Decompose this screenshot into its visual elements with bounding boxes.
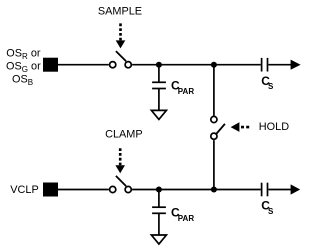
capacitor CS top plates xyxy=(262,58,268,72)
svg-text:VCLP: VCLP xyxy=(10,184,38,196)
control arrow CLAMP head xyxy=(115,165,125,173)
svg-text:OSR or: OSR or xyxy=(6,47,41,61)
terminal VCLP pad xyxy=(43,183,58,197)
control arrow SAMPLE dashed line xyxy=(119,23,122,40)
wire CPAR bottom to ground xyxy=(158,213,160,235)
node junction bottom CPAR xyxy=(156,187,162,193)
wire CLAMP switch to CS (bottom rail) xyxy=(132,189,261,191)
ground top xyxy=(151,110,166,119)
switch CLAMP left contact xyxy=(110,186,116,192)
terminal OS input pad xyxy=(43,58,58,72)
capacitor CPAR top plates xyxy=(152,82,166,88)
svg-text:OSB: OSB xyxy=(12,73,33,87)
node junction top CPAR xyxy=(156,62,162,68)
control arrow HOLD head xyxy=(231,122,240,132)
control arrow CLAMP dashed line xyxy=(119,148,122,165)
svg-text:HOLD: HOLD xyxy=(259,121,289,133)
ground bottom xyxy=(151,235,166,244)
wire CS bottom to output arrow xyxy=(268,189,291,191)
switch CLAMP right contact xyxy=(125,186,131,192)
capacitor CPAR top lead xyxy=(158,65,160,83)
svg-text:CLAMP: CLAMP xyxy=(105,129,143,141)
wire OS pad to SAMPLE switch xyxy=(58,64,109,66)
node junction top HOLD xyxy=(211,62,217,68)
capacitor CPAR bottom lead xyxy=(158,190,160,208)
svg-text:S: S xyxy=(268,82,274,91)
wire HOLD branch lower xyxy=(213,140,215,189)
wire CS top to output arrow xyxy=(268,64,291,66)
switch CLAMP blade xyxy=(116,176,126,186)
switch SAMPLE left contact xyxy=(110,62,116,68)
svg-text:SAMPLE: SAMPLE xyxy=(98,5,142,17)
switch SAMPLE blade xyxy=(116,51,126,61)
wire CPAR top to ground xyxy=(158,89,160,111)
control arrow SAMPLE head xyxy=(116,40,126,48)
control arrow HOLD dashed line xyxy=(241,126,249,129)
svg-text:PAR: PAR xyxy=(178,214,195,223)
output arrow top xyxy=(291,60,301,70)
node junction bottom HOLD xyxy=(211,187,217,193)
wire HOLD branch upper xyxy=(213,65,215,116)
capacitor CPAR bottom plates xyxy=(152,207,166,213)
switch HOLD top contact xyxy=(211,116,217,122)
switch HOLD blade xyxy=(217,124,225,134)
switch SAMPLE right contact xyxy=(125,62,131,68)
switch HOLD bottom contact xyxy=(211,133,217,139)
wire SAMPLE switch to CS (top rail) xyxy=(132,64,261,66)
svg-text:PAR: PAR xyxy=(178,87,195,96)
svg-text:S: S xyxy=(268,207,274,216)
svg-text:OSG or: OSG or xyxy=(6,60,41,74)
output arrow bottom xyxy=(291,184,301,194)
label OS input net xyxy=(6,47,41,87)
capacitor CS bottom plates xyxy=(262,183,268,197)
wire VCLP pad to CLAMP switch xyxy=(58,189,109,191)
